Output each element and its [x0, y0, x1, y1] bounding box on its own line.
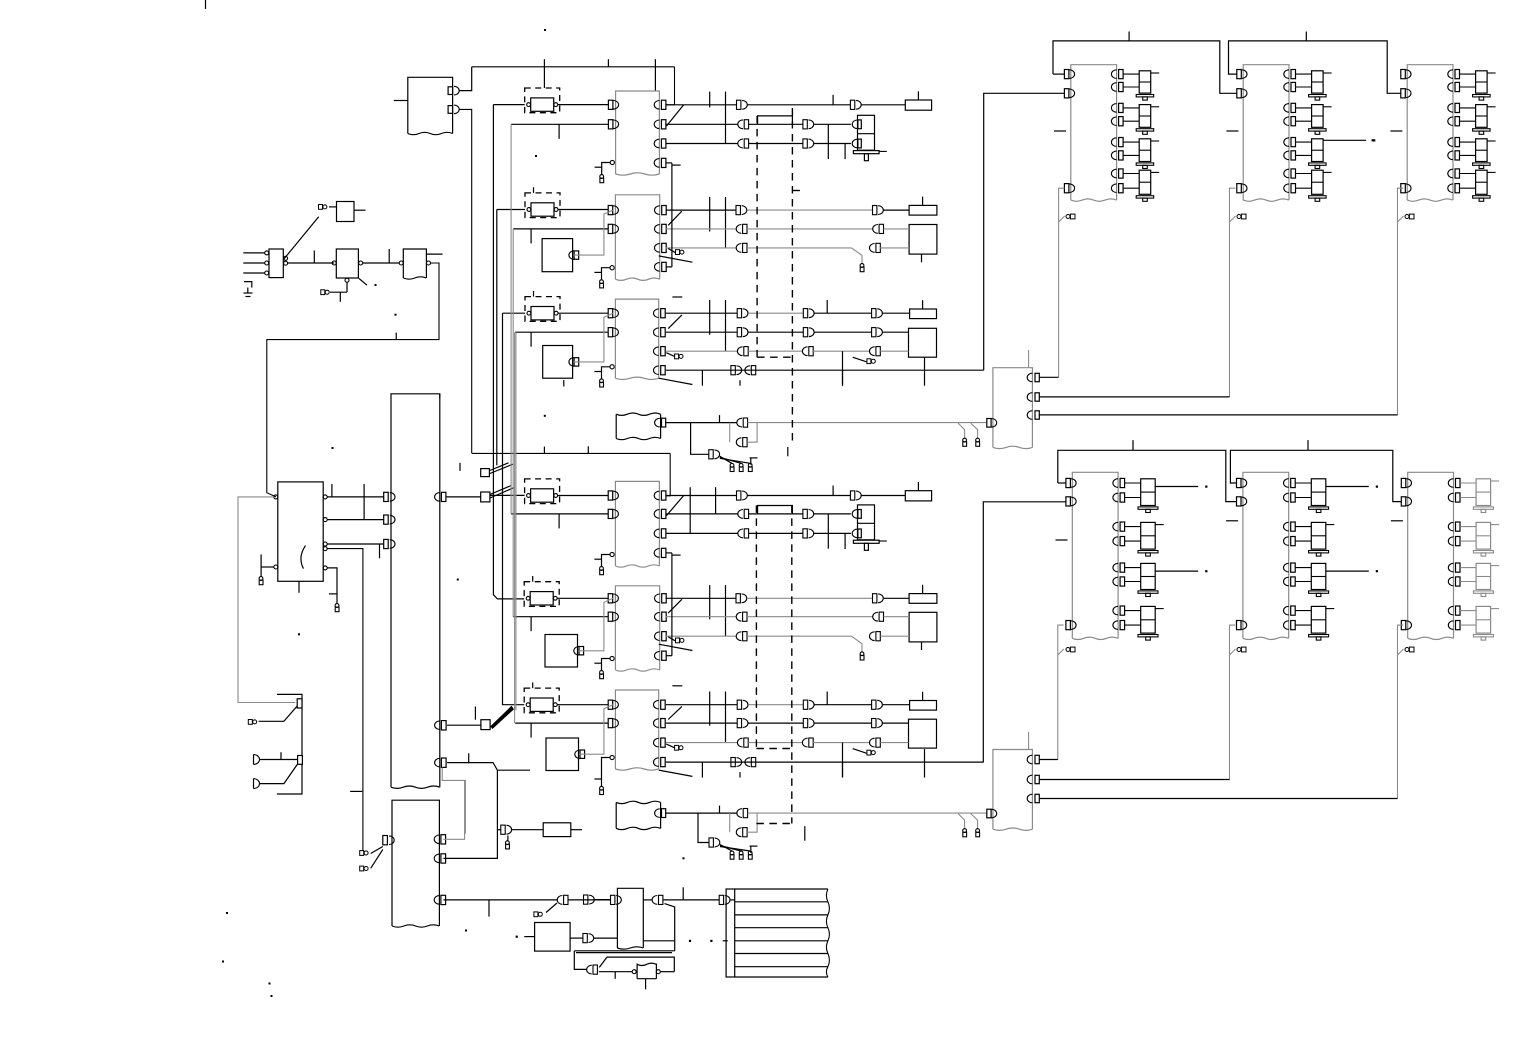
- ground: [244, 282, 252, 288]
- wire stub: [672, 296, 682, 298]
- tick: [530, 332, 532, 347]
- right pin 7: [1283, 606, 1288, 615]
- right pin 4: [655, 263, 660, 272]
- diagonal: [371, 850, 383, 869]
- wire: [643, 940, 674, 942]
- connector pair: [737, 491, 741, 500]
- dot: [1373, 139, 1375, 141]
- relay base: [853, 540, 879, 543]
- connector pair: [803, 529, 807, 538]
- relay base: [1309, 196, 1327, 198]
- wire stub: [533, 291, 535, 297]
- relay K: [1476, 563, 1491, 589]
- pin 3: [1027, 794, 1032, 803]
- wire stub: [594, 371, 601, 373]
- tick: [530, 229, 532, 244]
- relay base: [1136, 129, 1154, 131]
- connector pair: [736, 225, 741, 234]
- connector J2: [321, 290, 325, 295]
- left pin 1: [1237, 70, 1242, 79]
- right pin 6: [1448, 151, 1453, 160]
- right pin 5: [323, 566, 327, 570]
- decoder block U40: [617, 888, 643, 948]
- relay K: [1476, 522, 1491, 549]
- wire row2: [666, 616, 736, 618]
- right pin 7: [1448, 606, 1453, 615]
- connector pair: [872, 328, 876, 337]
- dot: [1205, 486, 1207, 488]
- wire: [557, 704, 608, 706]
- wire: [574, 313, 613, 362]
- right pin 1: [654, 700, 659, 709]
- pin terminator: [666, 353, 674, 357]
- relay base: [1136, 163, 1154, 165]
- crossing tick: [827, 514, 829, 549]
- connector pair: [738, 120, 743, 129]
- wire: [570, 937, 583, 939]
- tick: [468, 753, 470, 763]
- dashed jog: [757, 356, 792, 358]
- connector pair: [736, 438, 741, 447]
- wire: [1460, 187, 1476, 189]
- tick: [922, 300, 924, 309]
- left pin 1: [1401, 70, 1406, 79]
- connector pair: [870, 738, 875, 747]
- wire: [1460, 86, 1476, 88]
- gate U20: [269, 249, 283, 278]
- terminator: [600, 175, 604, 179]
- left pin 1: [1066, 478, 1071, 487]
- dot: [516, 936, 518, 938]
- wire: [602, 659, 611, 671]
- wire: [1125, 497, 1141, 499]
- wire: [671, 163, 673, 267]
- bus wire v3: [503, 313, 525, 705]
- right pin 4: [654, 758, 659, 767]
- diagonal: [1398, 649, 1404, 655]
- connector pair: [738, 529, 743, 538]
- connector pair: [737, 309, 741, 318]
- relay base: [1138, 507, 1158, 509]
- wire stub: [672, 164, 681, 166]
- relay base: [1473, 635, 1493, 637]
- dot: [457, 579, 459, 581]
- crossing tick: [739, 380, 741, 386]
- dot: [1376, 570, 1378, 572]
- connector pair: [803, 700, 807, 709]
- wire row12: [666, 369, 984, 371]
- right pin 3: [1448, 522, 1453, 531]
- right pin 6: [1284, 151, 1289, 160]
- left pin 3: [1237, 621, 1242, 630]
- wire: [1295, 497, 1311, 499]
- relay base: [1473, 95, 1491, 97]
- connector pair: [850, 491, 854, 500]
- tick: [719, 806, 721, 814]
- wire stub: [672, 554, 681, 556]
- wire: [1040, 798, 1398, 800]
- crossing tick: [709, 92, 711, 108]
- crossing tick: [709, 197, 711, 232]
- diagonal: [720, 847, 750, 852]
- wire: [1460, 526, 1476, 528]
- relay K: [1311, 479, 1326, 506]
- right pin 2: [655, 225, 660, 234]
- left pin 2: [274, 565, 278, 569]
- relay K: [1311, 563, 1326, 589]
- pin terminator: [668, 249, 675, 253]
- pin: [575, 750, 580, 759]
- wire rowE: [666, 812, 737, 814]
- wire: [747, 635, 852, 637]
- left pin: [383, 836, 388, 845]
- left pin 2: [1237, 497, 1242, 506]
- right pin 3: [654, 529, 659, 538]
- crossing tick: [832, 486, 834, 496]
- slash: [659, 770, 693, 776]
- terminator: [600, 280, 604, 284]
- wire: [327, 568, 337, 604]
- crossing tick: [826, 692, 828, 705]
- bus interface block TB2: [392, 800, 439, 926]
- left pin 3: [1401, 621, 1406, 630]
- inverter bubble: [610, 552, 614, 556]
- wire: [568, 899, 611, 901]
- left pin 1: [608, 100, 613, 109]
- right pin q3: [435, 758, 440, 767]
- tick: [474, 707, 476, 720]
- wire drop: [1059, 188, 1065, 377]
- terminating box: [909, 594, 937, 604]
- right pin 4: [1284, 537, 1289, 546]
- wire: [327, 519, 384, 521]
- left pin 3: [1401, 184, 1406, 193]
- relay K: [1476, 139, 1488, 162]
- wire row3: [666, 143, 738, 145]
- inverter bubble: [610, 160, 614, 164]
- ribbon wire: [735, 914, 828, 916]
- left pin r3: [384, 539, 389, 548]
- wire: [1155, 570, 1198, 572]
- dashed connector column P1b: [755, 505, 757, 748]
- relay base: [1309, 551, 1329, 553]
- node square N1: [481, 469, 490, 477]
- dot: [535, 155, 537, 157]
- diagonal: [720, 458, 750, 463]
- connector pair: [870, 244, 875, 253]
- connector pair: [719, 895, 723, 904]
- wire: [260, 759, 298, 761]
- wire stub: [594, 558, 601, 560]
- crossing tick: [826, 300, 828, 313]
- crossing tick: [924, 357, 926, 386]
- connector J1: [319, 205, 323, 210]
- wire: [1296, 187, 1312, 189]
- right pin 2: [1448, 493, 1453, 502]
- right pin p3: [434, 896, 439, 905]
- left pin 1: [1401, 478, 1406, 487]
- terminator: [248, 720, 252, 725]
- connector pair: [584, 895, 588, 904]
- branch: [490, 494, 524, 496]
- dot: [226, 912, 228, 914]
- relay K: [1139, 170, 1151, 194]
- big box: [909, 719, 937, 748]
- relay base: [1309, 591, 1329, 593]
- connector pair: [736, 244, 741, 253]
- wire rowE long: [748, 422, 987, 424]
- terminating box: [910, 309, 937, 319]
- wire: [1040, 759, 1058, 761]
- wire: [880, 635, 909, 637]
- wire feed: [984, 93, 1065, 370]
- diagonal: [1230, 649, 1236, 655]
- tick: [530, 723, 532, 738]
- right pin q2: [435, 721, 440, 730]
- wire: [595, 899, 611, 901]
- terminator: [963, 438, 967, 442]
- right pin 2: [654, 510, 659, 519]
- right pin 4: [654, 366, 659, 375]
- monostable M1: [545, 635, 578, 668]
- right pin 2: [1448, 83, 1453, 92]
- dot: [544, 415, 546, 417]
- stub: [750, 457, 758, 459]
- left stub: [1390, 130, 1402, 132]
- relay K: [1476, 170, 1488, 194]
- right pin 7: [1448, 169, 1453, 178]
- wire to bus: [459, 67, 472, 91]
- wire: [748, 704, 803, 706]
- bottom bus wire: [472, 452, 671, 454]
- wire: [1296, 154, 1312, 156]
- buffer block U6: [615, 414, 617, 438]
- terminator: [534, 912, 538, 917]
- delay line DL1b: [525, 479, 560, 504]
- left stub: [1054, 130, 1066, 132]
- connector pair: [873, 612, 878, 621]
- wire: [747, 813, 757, 832]
- drop terminator: [853, 749, 867, 754]
- relay base: [1473, 551, 1493, 553]
- ribbon wire: [735, 976, 828, 978]
- wire: [747, 209, 873, 211]
- fan: [490, 463, 509, 471]
- wire: [1123, 154, 1139, 156]
- wire: [813, 350, 869, 352]
- left pin r2: [384, 515, 389, 524]
- crossing tick: [725, 692, 727, 743]
- wire: [602, 758, 611, 787]
- wire: [747, 423, 757, 443]
- connector pair: [803, 509, 807, 518]
- driver IC: [1071, 65, 1117, 200]
- wire row3: [666, 350, 737, 352]
- tick: [558, 124, 560, 139]
- tick: [587, 446, 589, 453]
- dot: [1376, 486, 1378, 488]
- right pin 4: [654, 159, 659, 168]
- relay base: [1138, 635, 1158, 637]
- terminator: [739, 463, 743, 467]
- relay K: [1476, 71, 1488, 93]
- latch U3: [616, 91, 660, 174]
- tick: [922, 197, 924, 206]
- wire: [1295, 624, 1311, 626]
- connector pair: [736, 206, 740, 215]
- wire row4: [666, 655, 672, 657]
- right pin 1: [323, 495, 327, 499]
- stub: [260, 554, 262, 567]
- left pin 2: [1401, 497, 1406, 506]
- pin 1: [1027, 373, 1032, 382]
- wire: [576, 952, 672, 954]
- top stub: [1028, 732, 1030, 750]
- square pin s2: [298, 756, 303, 765]
- wire: [574, 950, 674, 952]
- relay K: [1141, 522, 1156, 549]
- relay base: [1473, 591, 1493, 593]
- right pin 6: [1111, 151, 1116, 160]
- wire: [880, 742, 908, 744]
- wire: [571, 829, 582, 831]
- wire: [1125, 624, 1141, 626]
- wire row3: [666, 742, 737, 744]
- pin: [569, 251, 574, 260]
- ribbon edge: [826, 889, 829, 977]
- left pin 2: [608, 120, 613, 129]
- relay base: [1136, 196, 1154, 198]
- wire row1: [666, 312, 737, 314]
- wire: [513, 228, 608, 230]
- right pin 8: [1448, 621, 1453, 630]
- dot: [465, 930, 467, 932]
- pin: [569, 358, 574, 367]
- connector pair: [736, 828, 741, 837]
- crossing tick: [842, 743, 844, 778]
- wire row2: [666, 722, 737, 724]
- left stub: [1391, 520, 1403, 522]
- wire: [346, 282, 348, 292]
- relay base: [1138, 551, 1158, 553]
- relay pin: [852, 529, 857, 538]
- branch: [497, 829, 500, 831]
- dashed connector column P2b: [791, 505, 793, 823]
- junction tick: [395, 333, 397, 340]
- latch U5: [615, 299, 658, 378]
- right pin 2: [655, 612, 660, 621]
- wire: [1326, 486, 1369, 488]
- connector pair: [501, 825, 505, 834]
- wire rowE long: [748, 812, 987, 814]
- right pin 3: [1284, 522, 1289, 531]
- ribbon wire: [735, 901, 828, 903]
- relay base: [1473, 163, 1491, 165]
- wire: [497, 209, 525, 211]
- connector block: [993, 750, 1033, 830]
- wire row1: [666, 597, 736, 599]
- crossing tick: [715, 487, 717, 514]
- dot: [544, 29, 546, 31]
- right pin 1: [1448, 70, 1453, 79]
- left stub: [1056, 539, 1068, 541]
- right pin 1: [1448, 479, 1453, 488]
- buffer U22: [403, 249, 426, 278]
- wire: [1296, 73, 1312, 75]
- right pin 5: [1284, 563, 1289, 572]
- connector pair: [872, 700, 876, 709]
- right pin 3: [1111, 104, 1116, 113]
- wire drop: [1398, 188, 1404, 415]
- connector pair: [872, 309, 876, 318]
- bus wire 2: [1230, 450, 1401, 501]
- tick: [654, 59, 656, 91]
- relay base: [1309, 95, 1327, 97]
- drop: [958, 814, 965, 829]
- left pin 1: [1064, 70, 1069, 79]
- crossing tick: [701, 762, 703, 778]
- wire row3: [666, 247, 736, 249]
- wire: [883, 722, 909, 724]
- wire: [602, 555, 611, 567]
- diagonal: [1230, 216, 1236, 222]
- right pin 8: [1448, 184, 1453, 193]
- stub: [329, 593, 337, 595]
- right pin 5: [1113, 563, 1118, 572]
- wire: [749, 532, 803, 534]
- wire: [513, 616, 608, 618]
- relay K: [1312, 170, 1324, 194]
- delay line DL3t: [525, 297, 560, 322]
- terminator: [1237, 215, 1241, 219]
- connector pair: [738, 510, 743, 519]
- dot: [222, 961, 224, 963]
- terminator: [335, 604, 339, 608]
- wire: [574, 210, 613, 255]
- wire: [883, 312, 910, 314]
- terminator: [1066, 215, 1070, 219]
- driver IC: [1408, 472, 1454, 638]
- right pin 2: [654, 328, 659, 337]
- connector pair: [870, 347, 875, 356]
- relay K: [1141, 563, 1156, 589]
- wire: [1125, 526, 1141, 528]
- connector pair: [803, 120, 807, 129]
- wire: [749, 143, 803, 145]
- crossing tick: [701, 370, 703, 386]
- wire row2: [666, 228, 736, 230]
- wire: [729, 813, 731, 832]
- tick: [1128, 32, 1130, 41]
- diagonal: [259, 706, 298, 721]
- right pin 2: [1284, 83, 1289, 92]
- terminator: [600, 567, 604, 571]
- right pin 8: [1113, 621, 1118, 630]
- connector pair: [802, 347, 807, 356]
- tick: [379, 544, 381, 558]
- stub: [614, 972, 616, 979]
- left stub: [1226, 130, 1238, 132]
- wire: [602, 268, 611, 280]
- crossing tick: [844, 533, 846, 549]
- wire: [814, 704, 871, 706]
- wire: [394, 100, 408, 102]
- tick: [530, 617, 532, 632]
- big box: [909, 612, 937, 642]
- wire: [260, 567, 262, 577]
- pullup box A1: [337, 202, 355, 222]
- right pin 3: [655, 632, 660, 641]
